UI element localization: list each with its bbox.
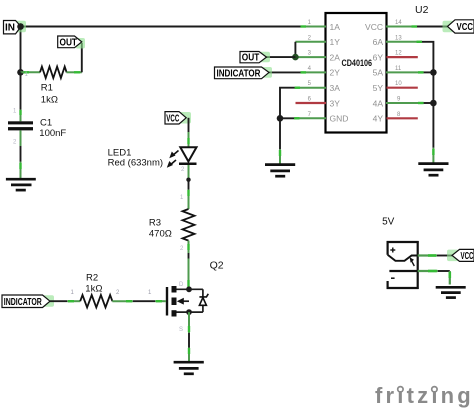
svg-text:INDICATOR: INDICATOR (217, 68, 262, 79)
svg-text:1kΩ: 1kΩ (85, 283, 102, 294)
svg-text:2Y: 2Y (330, 68, 341, 78)
node rail pin11 (430, 69, 437, 76)
U2 pin 12 stub unrouted (387, 56, 418, 58)
U2 pin 1 stub (301, 26, 327, 28)
label IN (4, 21, 27, 34)
svg-text:OUT: OUT (242, 53, 259, 64)
switch arrow (411, 260, 414, 266)
svg-text:5Y: 5Y (373, 83, 384, 93)
U2 pin numbers right (395, 20, 402, 118)
wire VCC to LED (188, 118, 190, 132)
IC U2 CD40106 (326, 4, 429, 133)
svg-text:INDICATOR: INDICATOR (4, 297, 43, 308)
wire C1 to ground (20, 130, 22, 146)
wire INDICATOR to pin 4 (269, 71, 301, 73)
wire R1 up to OUT label (81, 43, 83, 72)
channel segments (172, 286, 177, 293)
svg-text:CD40106: CD40106 (342, 58, 373, 69)
svg-text:2: 2 (308, 35, 312, 41)
svg-text:9: 9 (397, 97, 401, 103)
fritzing logo (375, 383, 474, 408)
svg-text:470Ω: 470Ω (149, 229, 172, 240)
U2 pin 14 stub (386, 26, 417, 28)
ground under jack (436, 287, 466, 297)
svg-text:3Y: 3Y (330, 98, 341, 108)
node source (186, 309, 192, 315)
label OUT middle (240, 52, 270, 64)
node at R1 junction (17, 69, 24, 76)
svg-text:D: D (179, 282, 184, 288)
wire IN down to R1 node (20, 27, 22, 73)
svg-text:2: 2 (13, 140, 17, 146)
plus sign (390, 249, 395, 251)
svg-text:VCC: VCC (461, 251, 474, 262)
node drain (186, 286, 192, 292)
svg-text:2: 2 (116, 290, 120, 296)
svg-text:4A: 4A (373, 98, 384, 108)
svg-text:OUT: OUT (60, 38, 78, 49)
svg-text:R3: R3 (149, 217, 161, 228)
U2 pin 13 stub (386, 41, 422, 43)
svg-text:10: 10 (395, 81, 402, 87)
label INDICATOR bottom (2, 295, 54, 308)
svg-text:5V: 5V (382, 217, 395, 228)
U2 pin names right (365, 22, 383, 124)
small pin number marks (13, 72, 185, 333)
wire pin 5 to gnd node (280, 88, 295, 119)
svg-text:7: 7 (308, 112, 312, 118)
R2 pin numbers (71, 290, 153, 296)
wire jack minus to ground (418, 270, 438, 272)
svg-text:2: 2 (181, 167, 185, 173)
svg-text:12: 12 (395, 51, 402, 57)
resistor R3 (149, 209, 195, 241)
wire pin 9 to rail (424, 102, 434, 104)
label VCC for LED (165, 112, 191, 125)
wire rail to ground right (432, 148, 434, 163)
svg-text:1kΩ: 1kΩ (41, 95, 58, 106)
node rail pin9 (430, 100, 437, 107)
U2 pin 8 stub unrouted (387, 117, 418, 119)
ground under C1 (6, 179, 36, 190)
ground under Q2 (174, 362, 204, 374)
U2 pin numbers left (308, 20, 312, 118)
svg-text:6A: 6A (373, 37, 384, 47)
U2 pin 11 stub (386, 71, 424, 73)
svg-text:VCC: VCC (365, 22, 383, 32)
ground under U2 right (418, 164, 448, 176)
svg-text:Q2: Q2 (210, 259, 224, 271)
svg-text:1: 1 (148, 290, 152, 296)
resistor R1 (21, 67, 82, 106)
wire Q2 source to ground (188, 312, 190, 333)
svg-text:2: 2 (180, 246, 184, 252)
wire pin 13 down right rail (422, 42, 433, 148)
svg-text:1: 1 (308, 20, 312, 26)
U2 pin 9 stub (386, 102, 424, 104)
resistor R2 (80, 273, 112, 308)
svg-text:6Y: 6Y (373, 52, 384, 62)
U2 pin 4 stub (301, 71, 327, 73)
svg-text:C1: C1 (40, 117, 52, 128)
svg-text:1: 1 (71, 290, 75, 296)
drain connection (177, 288, 203, 290)
svg-text:8: 8 (397, 112, 401, 118)
node feedback junction (292, 54, 299, 61)
wire R3 to Q2 drain (188, 241, 190, 253)
U2 pin names left (330, 22, 349, 124)
label OUT top (58, 36, 85, 49)
power jack J1 5V (382, 217, 419, 290)
body diode (202, 289, 204, 297)
U2 pin 3 stub (295, 56, 326, 58)
svg-text:1: 1 (180, 195, 184, 201)
svg-text:5A: 5A (373, 68, 384, 78)
capacitor C1 (8, 72, 66, 139)
U2 pin 10 stub unrouted (387, 87, 418, 89)
LED LED1 (108, 147, 197, 168)
svg-text:6: 6 (308, 97, 312, 103)
ground under U2 left (265, 165, 295, 177)
wire LED to R3 (188, 165, 190, 179)
wire IN to U2 pin 1A (21, 26, 301, 28)
U2 pin 5 stub (295, 87, 326, 89)
svg-text:U2: U2 (415, 4, 429, 16)
svg-text:1A: 1A (330, 22, 341, 32)
wire INDICATOR to R2 (50, 300, 67, 302)
svg-text:5: 5 (308, 81, 312, 87)
U2 pin 2 stub + feedback wire to pin 3 (295, 41, 326, 43)
svg-text:1: 1 (13, 109, 17, 115)
svg-text:4: 4 (308, 66, 312, 72)
source connection (177, 311, 203, 313)
svg-text:Red (633nm): Red (633nm) (108, 157, 163, 168)
minus sign (391, 277, 395, 279)
svg-text:R2: R2 (86, 273, 98, 284)
svg-text:GND: GND (330, 114, 349, 124)
svg-text:VCC: VCC (166, 114, 179, 125)
label INDICATOR middle (215, 67, 273, 79)
svg-text:14: 14 (395, 20, 402, 26)
U2 pin 7 stub (294, 117, 326, 119)
wire node to ground (279, 118, 281, 149)
node at IN junction (17, 23, 24, 30)
svg-text:S: S (179, 327, 183, 333)
svg-text:3: 3 (308, 51, 312, 57)
LED emission arrows (167, 151, 179, 168)
svg-text:1Y: 1Y (330, 37, 341, 47)
svg-text:13: 13 (395, 35, 402, 41)
wire pin 11 to rail (424, 71, 434, 73)
svg-text:4Y: 4Y (373, 114, 384, 124)
wire R2 to Q2 gate (112, 300, 133, 302)
svg-text:100nF: 100nF (39, 128, 66, 139)
label VCC top right (443, 20, 474, 33)
transistor Q2 (167, 259, 224, 316)
wire pin 14 to VCC label (417, 26, 448, 28)
gate bar (166, 287, 168, 316)
wire pin 7 to gnd node (280, 117, 294, 119)
svg-text:frıtzıng: frıtzıng (375, 383, 474, 408)
U2 pin 6 stub unrouted (296, 102, 327, 104)
wire OUT to feedback node (267, 56, 296, 58)
node gnd junction left (277, 115, 284, 122)
svg-text:3A: 3A (330, 83, 341, 93)
node LED bendpoint (186, 178, 190, 182)
wire jack plus to VCC (418, 254, 437, 256)
svg-text:R1: R1 (41, 83, 53, 94)
label VCC jack (447, 249, 474, 262)
body arrow (182, 300, 189, 302)
svg-text:2A: 2A (330, 52, 341, 62)
svg-text:IN: IN (5, 23, 15, 34)
svg-text:11: 11 (395, 66, 402, 72)
svg-text:VCC: VCC (457, 22, 474, 33)
